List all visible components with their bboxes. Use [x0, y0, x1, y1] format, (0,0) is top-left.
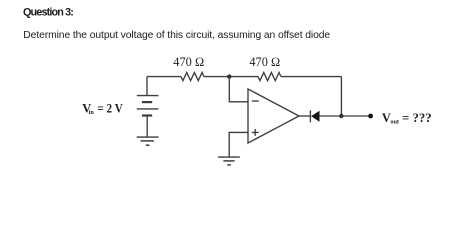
node B junction dot — [339, 114, 343, 118]
svg-text:470 Ω: 470 Ω — [173, 55, 204, 69]
svg-text:= ???: = ??? — [402, 111, 432, 125]
resistor R2 — [258, 73, 281, 81]
svg-text:Question 3:: Question 3: — [23, 7, 73, 19]
op-amp U1 — [248, 89, 299, 143]
wire diode to node B — [320, 115, 342, 117]
node A junction dot — [227, 74, 231, 78]
label Vout = ??? — [382, 111, 432, 126]
wire R1 to node A — [204, 76, 229, 78]
label Vin = 2 V — [82, 101, 123, 116]
wire feedback vertical drop — [340, 77, 342, 116]
wire noninverting input to ground branch — [229, 132, 248, 156]
svg-text:= 2 V: = 2 V — [97, 101, 122, 115]
svg-text:470 Ω: 470 Ω — [249, 55, 280, 69]
svg-text:in: in — [89, 109, 95, 116]
wire node B to output terminal — [341, 115, 370, 117]
op-amp noninverting pin plus sign — [252, 129, 259, 136]
ground below battery — [137, 137, 159, 145]
ground below op-amp — [218, 157, 240, 165]
wire R2 to feedback corner — [281, 76, 341, 78]
battery V1 — [137, 96, 159, 116]
resistor R1 — [181, 73, 204, 81]
op-amp inverting pin minus sign — [252, 100, 259, 102]
diode D1 triangle — [311, 111, 319, 122]
svg-text:Determine the output voltage o: Determine the output voltage of this cir… — [23, 30, 330, 41]
svg-text:out: out — [390, 119, 400, 126]
diode D1 cathode bar — [309, 110, 311, 122]
wire node A to R2 — [229, 76, 258, 78]
wire node A down to inverting input — [229, 77, 248, 102]
wire battery negative down to ground — [146, 116, 148, 137]
wire top rail left segment — [147, 76, 181, 78]
wire op-amp output to diode — [299, 115, 310, 117]
output terminal dot — [368, 114, 373, 119]
wire from battery positive up to top rail — [146, 77, 148, 96]
